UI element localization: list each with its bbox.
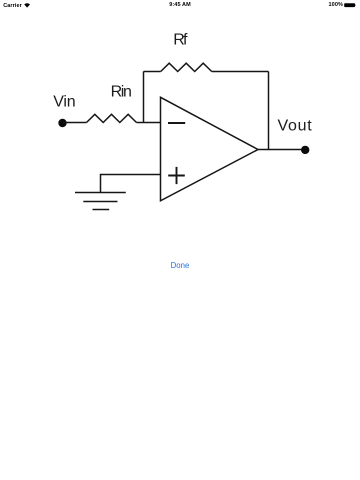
wire feedback top right [212, 71, 269, 73]
status bar time [169, 2, 191, 8]
Done button [0, 261, 360, 270]
resistor Rin [87, 114, 137, 122]
wire feedback right vertical [268, 72, 270, 150]
node Vout terminal dot [301, 146, 309, 154]
svg-text:Rf: Rf [173, 32, 188, 49]
resistor Rf [161, 63, 212, 71]
status bar battery percent [329, 2, 343, 8]
wire feedback left vertical [143, 72, 145, 123]
op-amp U1 [161, 97, 259, 201]
status bar wifi icon [24, 3, 31, 8]
status bar carrier text [3, 3, 22, 9]
wire non-inverting input to ground [101, 175, 161, 193]
svg-text:Rin: Rin [111, 84, 132, 101]
wire Vin to Rin [63, 122, 87, 124]
wire Rin to inverting input [137, 122, 161, 124]
op-amp inverting pin minus sign [168, 122, 185, 124]
ground [75, 193, 126, 210]
status bar battery icon [344, 3, 357, 8]
svg-text:Vin: Vin [53, 94, 75, 111]
op-amp non-inverting pin plus sign [168, 167, 185, 184]
svg-text:Vout: Vout [278, 118, 313, 135]
node Vin terminal dot [58, 119, 66, 127]
wire feedback top left [144, 71, 161, 73]
wire op-amp output to Vout [258, 149, 305, 151]
